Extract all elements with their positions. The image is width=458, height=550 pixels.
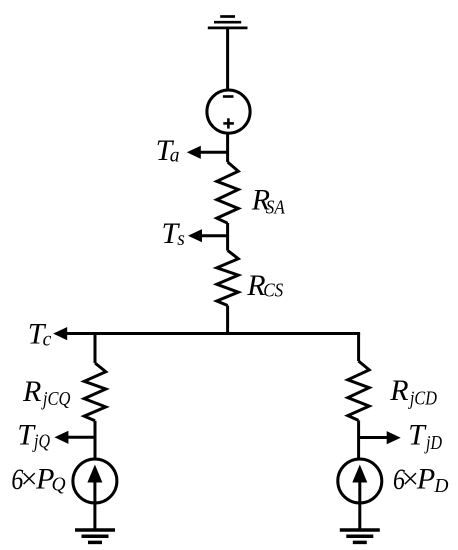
svg-text:Q: Q <box>52 475 66 496</box>
svg-text:a: a <box>170 145 180 166</box>
svg-text:c: c <box>43 329 52 350</box>
svg-text:jCQ: jCQ <box>40 389 70 410</box>
svg-text:jD: jD <box>424 433 442 454</box>
svg-text:jQ: jQ <box>32 432 50 453</box>
svg-text:s: s <box>177 229 185 250</box>
svg-text:CS: CS <box>263 281 283 302</box>
svg-text:R: R <box>22 375 41 408</box>
svg-text:jCD: jCD <box>407 388 436 409</box>
svg-text:P: P <box>416 463 435 496</box>
svg-text:SA: SA <box>266 198 285 219</box>
svg-text:T: T <box>408 418 427 451</box>
svg-text:R: R <box>389 374 408 407</box>
svg-text:D: D <box>433 476 448 497</box>
